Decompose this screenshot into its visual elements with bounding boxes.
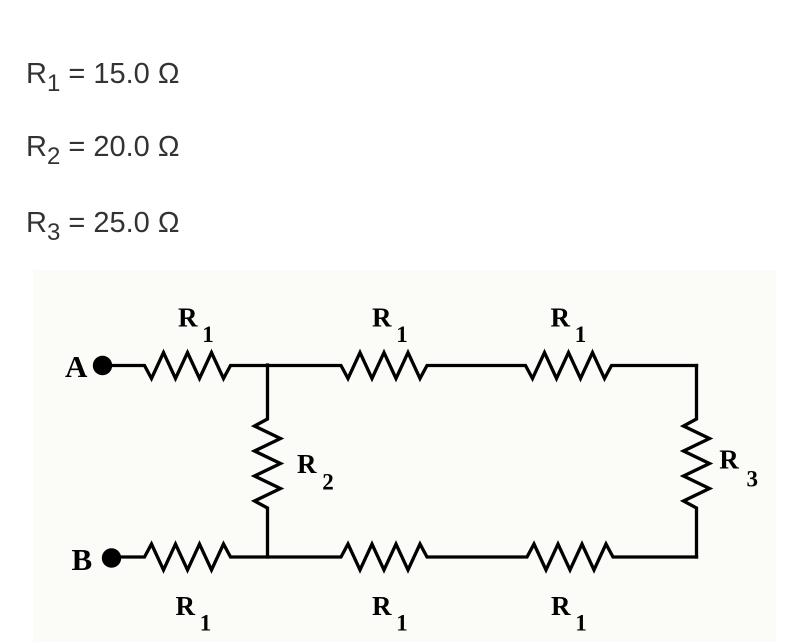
svg-text:1: 1 <box>396 322 408 347</box>
svg-text:1: 1 <box>575 611 587 636</box>
svg-text:R: R <box>176 591 196 621</box>
svg-text:R: R <box>551 303 571 333</box>
svg-text:3: 3 <box>747 467 759 492</box>
svg-text:A: A <box>65 349 88 384</box>
svg-text:R: R <box>372 303 392 333</box>
svg-text:1: 1 <box>202 322 214 347</box>
svg-text:R: R <box>178 303 198 333</box>
svg-text:R: R <box>719 445 739 475</box>
svg-text:1: 1 <box>575 322 587 347</box>
svg-text:R: R <box>297 449 317 479</box>
svg-text:2: 2 <box>322 470 334 495</box>
svg-text:1: 1 <box>396 611 408 636</box>
svg-text:R: R <box>372 591 392 621</box>
svg-text:B: B <box>72 542 93 577</box>
svg-text:1: 1 <box>200 611 212 636</box>
svg-text:R: R <box>551 591 571 621</box>
